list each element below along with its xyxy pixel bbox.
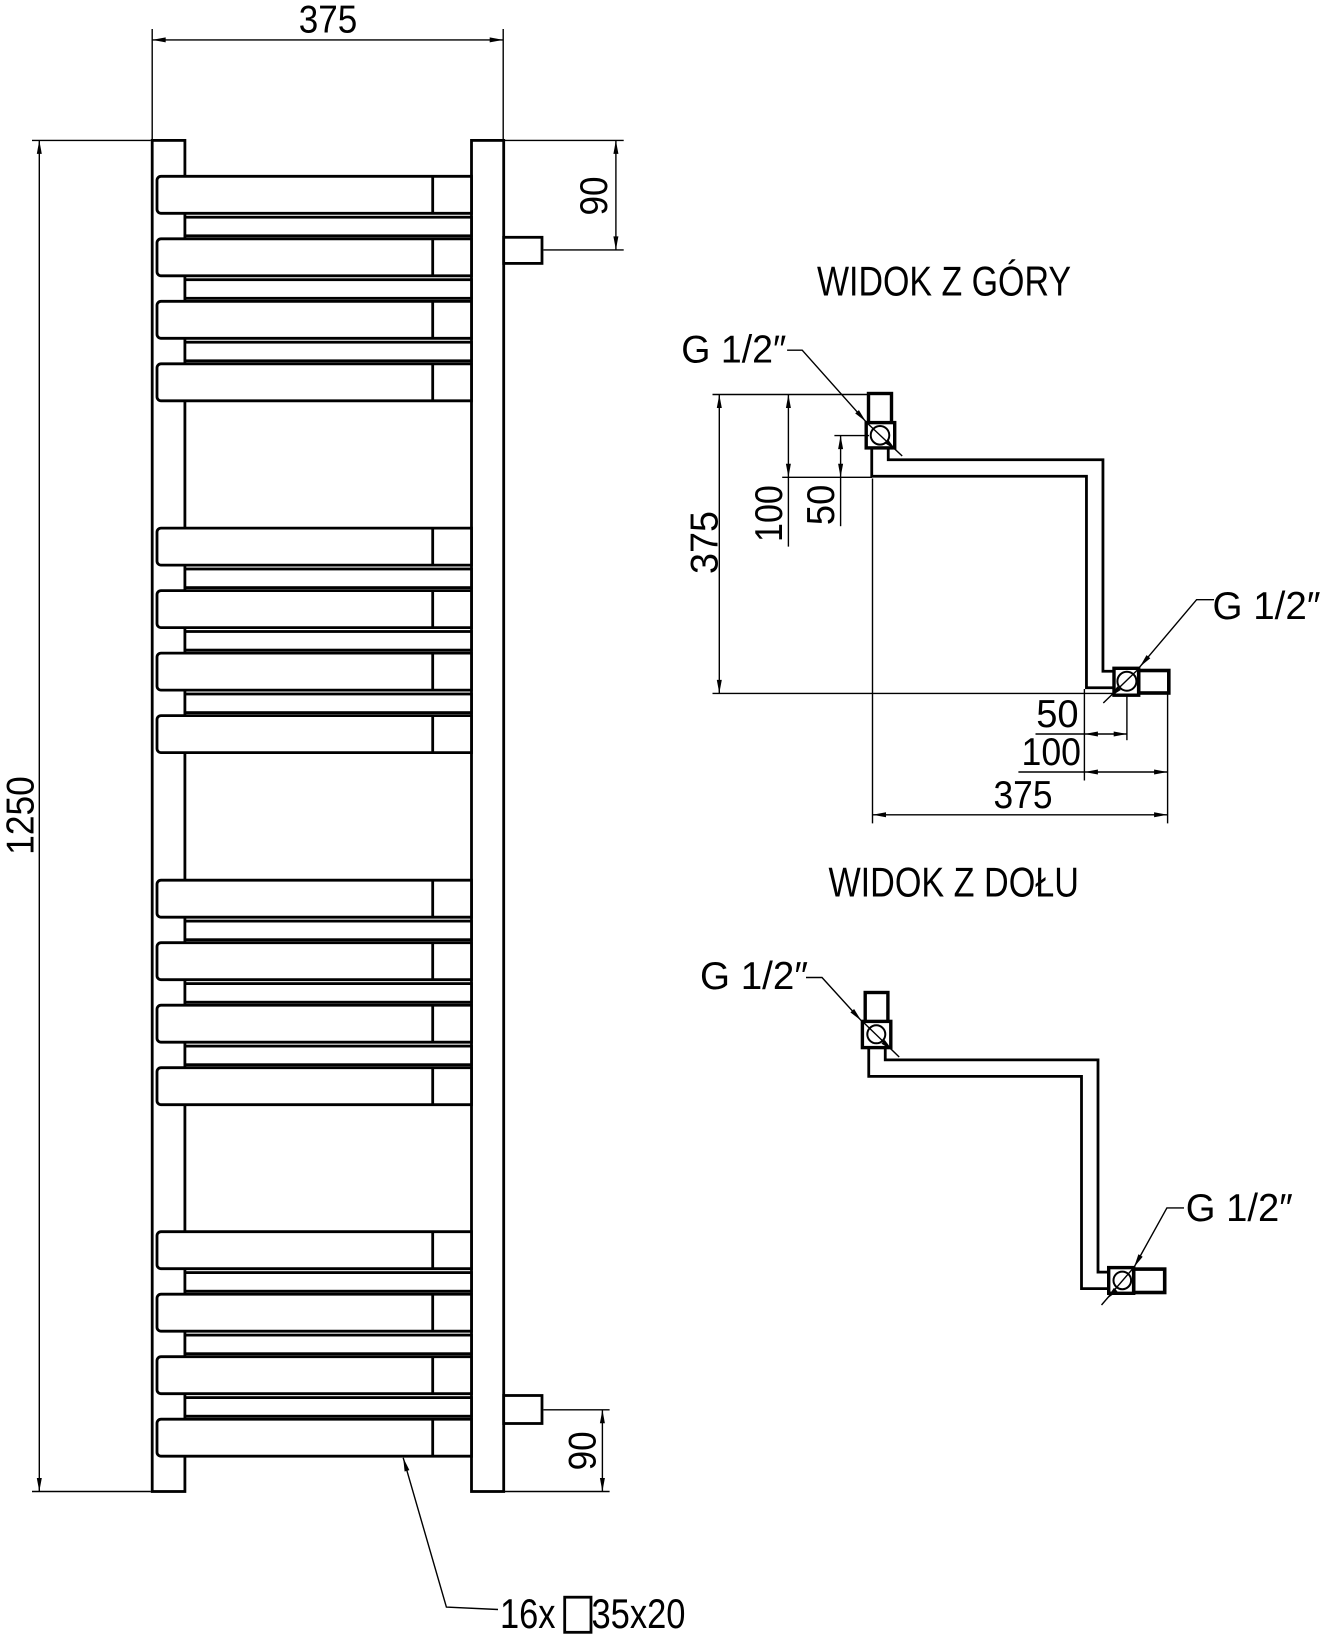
svg-text:16x: 16x <box>500 1591 556 1637</box>
svg-text:G 1/2″: G 1/2″ <box>681 329 786 372</box>
svg-text:G 1/2″: G 1/2″ <box>1213 585 1321 628</box>
svg-text:G 1/2″: G 1/2″ <box>700 955 808 998</box>
svg-text:375: 375 <box>299 0 358 42</box>
svg-text:50: 50 <box>800 485 843 525</box>
svg-text:1250: 1250 <box>0 776 43 855</box>
svg-text:375: 375 <box>994 774 1053 817</box>
svg-text:WIDOK Z DOŁU: WIDOK Z DOŁU <box>828 860 1079 906</box>
svg-text:90: 90 <box>562 1431 605 1470</box>
svg-text:WIDOK Z GÓRY: WIDOK Z GÓRY <box>817 259 1071 305</box>
svg-text:G 1/2″: G 1/2″ <box>1186 1187 1293 1230</box>
svg-text:100: 100 <box>1022 731 1082 774</box>
svg-text:90: 90 <box>573 177 616 216</box>
svg-text:100: 100 <box>748 485 791 542</box>
svg-text:35x20: 35x20 <box>592 1591 686 1637</box>
svg-text:50: 50 <box>1036 693 1078 736</box>
svg-text:375: 375 <box>684 511 727 574</box>
